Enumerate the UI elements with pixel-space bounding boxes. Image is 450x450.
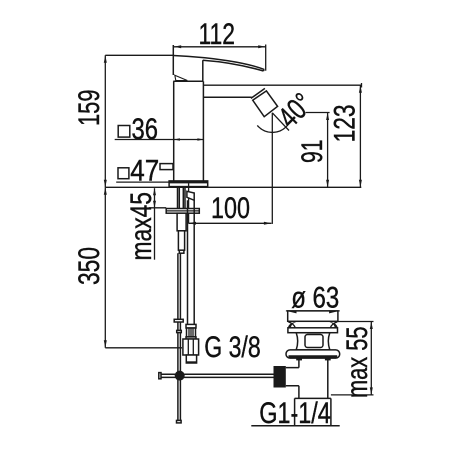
faucet body right edge [202,81,204,183]
leader line 36 [115,139,204,141]
max 55 dim line [370,322,372,395]
knurl ridges [189,328,193,337]
svg-text:ø 63: ø 63 [291,281,339,314]
mounting washer bar [166,209,199,214]
overflow window [305,335,323,348]
svg-text:123: 123 [329,104,362,142]
tail pipe top nubs [296,358,302,360]
shank lower block B [178,231,184,250]
pull rod mid foot [177,330,182,332]
handle base wedge [175,75,188,80]
hex nut G3/8 [183,339,199,355]
hose ferrule cap [186,324,196,328]
arrow 112 right [258,45,266,48]
faucet body top line [173,80,203,82]
faucet handle blade bottom curve [203,60,264,71]
arrow 91 bottom [326,180,329,188]
svg-text:G 3/8: G 3/8 [204,331,261,364]
label square36 symbol [118,126,130,138]
pull rod foot [177,420,182,423]
blade tip close [263,69,266,71]
base plate [169,181,208,187]
leader line 47 [116,181,169,183]
drain tail lower [295,398,331,425]
svg-text:112: 112 [199,18,236,51]
hose knurl [187,328,196,337]
drain tail step [295,397,331,399]
body centerline below deck [188,183,190,223]
arrow max55 top [370,322,373,330]
aerator 40 degree slant leader [272,113,289,131]
drain tail upper [299,358,328,398]
dim line 91 [327,113,329,188]
washer mid line [166,210,199,212]
40 degree arc [257,125,288,133]
linkage rod to drain [160,374,274,377]
label square47 symbol [118,168,129,179]
arrow max45 top [153,188,156,195]
svg-text:max45: max45 [125,192,158,261]
arrow 112 left [174,45,182,48]
reference line 91 top [306,112,330,114]
supply hose [188,200,195,324]
drain lever stem [286,368,299,386]
dim line dia63 on cap top [286,310,340,312]
svg-text:100: 100 [211,192,250,225]
arrow 159 bottom [104,180,107,188]
dim line 159 [104,55,106,187]
base plate thick top edge [169,181,208,183]
drain flange ring [288,328,338,333]
arrow 123 top [359,85,362,93]
seal bottom thick edge [289,355,338,358]
drain lever knob [274,366,286,388]
dim line 123 [359,85,361,187]
svg-text:91: 91 [296,140,329,164]
rod cap [179,250,184,253]
cap skirt right [329,322,337,328]
svg-text:max 55: max 55 [341,327,374,399]
top reference line for 159 [105,54,173,56]
shank lower block A [177,213,186,231]
extension tick 123 top [361,83,363,88]
cap skirt left [288,322,296,328]
bottom reference line for 350 [105,347,182,349]
svg-text:159: 159 [73,90,106,127]
max45 dim line [154,188,156,260]
pull rod guide [174,319,183,322]
aerator axis vertical line [271,113,273,224]
washer top reference line [149,207,166,209]
extension line right of 112 [265,45,267,71]
arrow 350 bottom [104,340,107,348]
arrow 100 right [264,222,272,225]
small tab on body base [160,164,173,170]
spout arm bottom line [203,96,251,98]
linkage pivot dot [175,371,185,381]
svg-text:36: 36 [132,113,159,146]
thread stub bottom edge [186,361,196,363]
drain plug cap [288,311,338,321]
linkage rod end cap [159,373,161,379]
dim line 350 [104,187,106,347]
arrow dia63 right [329,310,338,313]
drain body [296,333,330,350]
hose outlet tab [187,191,194,200]
faucet body left edge [173,81,175,183]
hex facets [188,339,193,355]
dim line 100 [189,222,272,224]
arrow max45 bottom [153,201,156,208]
aerator head [253,91,278,117]
thread stub [186,355,196,363]
handle back edge [172,45,174,75]
arrow 350 top [104,187,107,195]
deck line [105,186,361,188]
max55 top reference [335,321,373,323]
drain seal [286,350,340,358]
svg-text:G1-1/4: G1-1/4 [259,397,331,430]
arrow 123 bottom [359,180,362,188]
arrow dia63 left [288,310,297,313]
nut top band [186,337,196,339]
arrow 36 left [174,138,180,140]
faucet handle blade top curve [173,56,264,70]
drain bottom line / G1-1/4 underline [251,425,339,427]
spout arm top line extending to 123 dim [203,84,361,86]
arrow 36 right [197,138,203,140]
threaded shank [178,188,186,209]
svg-text:350: 350 [73,247,106,285]
aerator cap edge [251,88,265,98]
dim line 112 [174,46,266,48]
pop-up pull rod [178,253,181,420]
arrow max55 bottom [370,387,373,395]
arrow 100 left [189,222,197,225]
arrow 159 top [104,55,107,63]
handle front edge [202,60,204,81]
arrow 91 top [326,113,329,121]
max55 bottom reference [331,394,374,396]
